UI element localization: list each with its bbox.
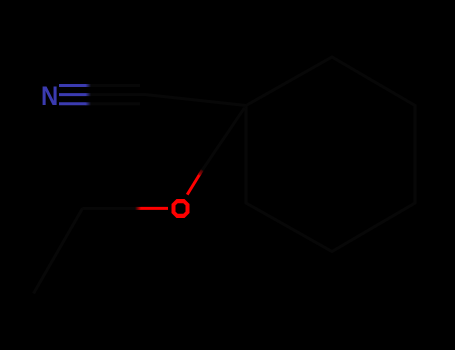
nitrile triple bond blue segment — [59, 84, 86, 87]
cyclohexane ring (faint) — [246, 57, 415, 252]
bond O to ethyl CH2: faint left part — [83, 207, 139, 210]
O label — [172, 199, 190, 218]
bond O to ring C1: red lower part — [187, 174, 200, 195]
bond O to ring C1: faint upper part — [201, 108, 245, 172]
nitrile triple bond faint continuation — [88, 84, 140, 87]
ethyl CH2-CH3 bond (faint) — [34, 208, 83, 293]
bond C(nitrile) to ring C1 (faint) — [146, 95, 246, 106]
svg-text:N: N — [41, 81, 58, 111]
bond O to ethyl CH2: red right part — [141, 207, 168, 210]
